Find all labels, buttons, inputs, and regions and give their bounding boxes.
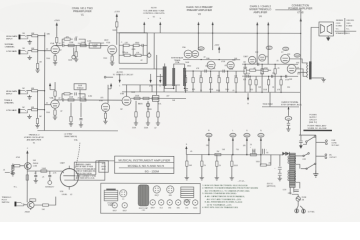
capacitor psu plus 2 bbox=[262, 149, 268, 155]
wire d3 to bus bbox=[200, 83, 202, 92]
svg-text:4W: 4W bbox=[243, 145, 246, 147]
svg-text:1500: 1500 bbox=[103, 58, 107, 60]
svg-text:+: + bbox=[274, 168, 275, 170]
svg-text:STRIP (SPEAKER JACK): STRIP (SPEAKER JACK) bbox=[281, 103, 302, 106]
resistor driver d5 bbox=[218, 71, 220, 77]
wire terminal drop bbox=[269, 92, 271, 106]
resistor pi mid b bbox=[262, 69, 268, 71]
svg-text:CAPACITANCE): CAPACITANCE) bbox=[64, 135, 78, 138]
svg-text:420V: 420V bbox=[259, 135, 263, 137]
wire V3B out row bbox=[131, 97, 186, 99]
svg-text:GND: GND bbox=[288, 193, 293, 195]
label driver row bbox=[184, 76, 238, 78]
svg-text:6V6: 6V6 bbox=[287, 54, 290, 56]
svg-text:6SQ7: 6SQ7 bbox=[155, 195, 159, 197]
capacitor driver coupling bbox=[205, 70, 206, 73]
wire pi mid row bbox=[246, 69, 271, 71]
resistor R4 bbox=[68, 44, 74, 46]
wire signal row ch1 bbox=[64, 44, 103, 46]
resistor mix 1 bbox=[134, 97, 140, 99]
capacitor rect filter b bbox=[278, 170, 282, 175]
resistor plate V1A bbox=[56, 38, 58, 43]
ground cap ch2 mid bbox=[79, 123, 83, 127]
AC plug bbox=[295, 206, 316, 214]
section header channel 1 preamplifier bbox=[72, 7, 93, 17]
label Q1 bbox=[33, 163, 38, 168]
svg-text:1500: 1500 bbox=[46, 58, 50, 60]
capacitor tremolo input bbox=[3, 169, 15, 174]
wire transformer secondary bottom bbox=[296, 182, 300, 188]
label speckle row ch1 bbox=[58, 40, 142, 61]
resistor tremolo base2 bbox=[12, 163, 14, 169]
wire driver signal row bbox=[183, 70, 245, 72]
capacitor pi extra a bbox=[247, 75, 248, 78]
svg-text:V2: V2 bbox=[153, 17, 155, 19]
supply arrow V3B bbox=[108, 83, 112, 103]
wire signal row ch2 bbox=[64, 99, 122, 101]
svg-text:270: 270 bbox=[272, 73, 275, 75]
svg-text:6C4: 6C4 bbox=[160, 207, 163, 209]
pot tone right bbox=[147, 52, 151, 57]
capacitor line GND bbox=[288, 190, 299, 195]
speaker spec table bbox=[335, 18, 357, 35]
section header tremolo bbox=[24, 135, 44, 145]
power transformer primary loops bbox=[288, 156, 289, 181]
boxed mixer component bbox=[152, 96, 159, 102]
resistor grid stopper ch1b bbox=[32, 50, 38, 52]
tube V2B bbox=[192, 50, 202, 58]
resistor ch1 bypass bbox=[64, 38, 70, 40]
ground jack3 bbox=[27, 95, 31, 99]
svg-text:INPUT: INPUT bbox=[6, 38, 13, 40]
resistor pi 3 bbox=[255, 76, 257, 79]
svg-text:.02: .02 bbox=[253, 68, 255, 70]
ground rect filter bbox=[279, 176, 281, 177]
wire pi4 down bbox=[261, 74, 263, 92]
resistor Q2 emitter bbox=[30, 208, 32, 210]
wire psu riser join bbox=[296, 155, 303, 157]
svg-text:80: 80 bbox=[266, 152, 268, 154]
label level bbox=[62, 194, 73, 196]
tube V4 phase inverter a bbox=[248, 56, 256, 64]
svg-text:+: + bbox=[266, 149, 267, 151]
svg-text:8 OHM: 8 OHM bbox=[346, 26, 352, 28]
svg-text:1500: 1500 bbox=[225, 89, 229, 91]
svg-text:340V: 340V bbox=[207, 135, 211, 137]
svg-text:INTENSITY: INTENSITY bbox=[45, 187, 55, 189]
svg-text:CHANNEL: CHANNEL bbox=[5, 45, 16, 48]
resistor R5 bbox=[80, 44, 86, 46]
svg-text:1500: 1500 bbox=[46, 112, 50, 114]
svg-text:.02: .02 bbox=[58, 98, 60, 100]
capacitor 15V bbox=[287, 120, 290, 125]
wire pi2 down bbox=[249, 85, 251, 92]
svg-text:.02: .02 bbox=[75, 36, 77, 38]
svg-text:V5: V5 bbox=[33, 143, 35, 145]
output transformer icon bbox=[181, 187, 194, 204]
svg-text:+340V: +340V bbox=[214, 45, 220, 47]
node B+ takeoff V4B bbox=[267, 22, 269, 65]
wire plate V3A bbox=[54, 96, 62, 100]
supply arrow tremolo bbox=[26, 148, 28, 158]
svg-text:6EU7: 6EU7 bbox=[113, 210, 117, 212]
title block frame bbox=[115, 156, 174, 173]
wire pi7 down bbox=[280, 85, 282, 92]
svg-text:C12R: C12R bbox=[336, 23, 341, 25]
resistor tremolo r2 bbox=[41, 170, 47, 172]
node E voltage ellipse bbox=[206, 130, 212, 137]
wire tone right vertical bbox=[153, 33, 155, 69]
ground jack1 bbox=[28, 40, 32, 44]
label speckle ch1 inputs bbox=[22, 33, 48, 50]
capacitor tremolo c2 bbox=[49, 171, 51, 174]
wire pi6 down bbox=[274, 74, 276, 92]
tube V2 bbox=[104, 40, 117, 55]
wire transformer bottom links bbox=[165, 86, 189, 89]
resistor cathode V3A bbox=[54, 108, 56, 110]
node B+ takeoff V1B bbox=[159, 22, 161, 33]
text power supply block bbox=[307, 114, 327, 130]
svg-text:.02: .02 bbox=[140, 60, 142, 62]
capacitor ch2 mid bbox=[79, 118, 82, 119]
wire plate feed bus y85 bbox=[122, 84, 180, 86]
resistor grid stopper ch2b bbox=[31, 109, 37, 111]
resistor filter 3 bbox=[216, 155, 218, 161]
svg-text:OUTLET: OUTLET bbox=[329, 157, 337, 159]
wire volume takeoff bbox=[75, 45, 77, 51]
resistor tone row2 a bbox=[124, 54, 130, 56]
jack J3 bbox=[18, 90, 27, 95]
svg-text:.02: .02 bbox=[46, 103, 48, 105]
tube socket icon A bbox=[120, 190, 127, 201]
resistor mix 3 bbox=[152, 97, 158, 99]
tube socket icon B bbox=[153, 186, 160, 197]
svg-text:.1: .1 bbox=[121, 42, 122, 44]
wire d5 to bus bbox=[218, 83, 220, 92]
svg-text:INPUT: INPUT bbox=[6, 93, 13, 95]
svg-text:.02: .02 bbox=[58, 43, 60, 45]
wire grid to tube V3A bbox=[45, 104, 51, 106]
capacitor rect filter a bbox=[274, 155, 281, 170]
label LPF row bbox=[132, 127, 157, 129]
ground grid leak ch1 bbox=[35, 68, 39, 72]
node S voltage ellipse bbox=[244, 130, 250, 137]
ground mix3 bbox=[156, 121, 160, 125]
wire plate V7 to OT bbox=[290, 59, 308, 63]
svg-text:.047: .047 bbox=[124, 42, 128, 44]
jack J1 bbox=[19, 35, 28, 40]
svg-text:4. INST. NPN. SILICON TRANSIST: 4. INST. NPN. SILICON TRANSISTORS bbox=[202, 206, 238, 209]
capacitor line filter bbox=[299, 135, 302, 143]
transformer T1 winding secondary 1 bbox=[172, 68, 175, 86]
ellipse voltage 170V bbox=[198, 47, 204, 51]
wire drop 140 bbox=[139, 85, 141, 92]
label speckle ch2 inputs bbox=[22, 88, 48, 118]
wire AC trunk bbox=[315, 135, 317, 170]
resistor grid leak ch1 bbox=[36, 63, 38, 68]
label mix row bbox=[135, 95, 140, 97]
transistor Q2 bbox=[27, 202, 34, 209]
svg-text:6EU7: 6EU7 bbox=[104, 40, 108, 42]
wire V3B plate bbox=[126, 85, 128, 96]
ground arrow line filter bbox=[299, 143, 303, 149]
wire pi mid row bbox=[242, 75, 298, 77]
svg-text:12AX7: 12AX7 bbox=[243, 55, 248, 58]
resistor vol mix 2 bbox=[147, 112, 149, 117]
svg-text:(APPROX): (APPROX) bbox=[267, 185, 276, 188]
svg-text:.01: .01 bbox=[3, 169, 5, 171]
resistor bass ch2 bbox=[70, 117, 72, 122]
svg-text:.02: .02 bbox=[60, 111, 62, 113]
resistor pi mid a bbox=[250, 69, 256, 71]
wire d1 to bus bbox=[185, 83, 187, 92]
svg-text:.05: .05 bbox=[190, 151, 192, 153]
node takeoff B under bus bbox=[247, 93, 249, 105]
ground cathode V3B bbox=[104, 118, 106, 120]
section header tremolo amplifier V4 bbox=[249, 4, 271, 18]
svg-text:2W: 2W bbox=[217, 151, 220, 153]
resistor psu bus 1 bbox=[215, 153, 221, 155]
title block rules bbox=[115, 162, 174, 168]
svg-text:2N508: 2N508 bbox=[25, 212, 30, 214]
svg-text:.02: .02 bbox=[46, 48, 48, 50]
svg-text:.02: .02 bbox=[199, 76, 201, 78]
svg-text:410: 410 bbox=[297, 73, 300, 75]
svg-text:EXT: EXT bbox=[102, 163, 105, 165]
pot mixer bbox=[146, 103, 150, 107]
capacitor pi coupling a bbox=[257, 63, 258, 66]
svg-text:POWER TRANS. ASSY: POWER TRANS. ASSY bbox=[307, 124, 327, 127]
svg-text:3. UNLESS OTHERWISE SPECIFIED:: 3. UNLESS OTHERWISE SPECIFIED: bbox=[202, 193, 237, 195]
wire OT secondary bottom bbox=[312, 77, 324, 79]
svg-text:AMPLIFIER: AMPLIFIER bbox=[253, 10, 267, 14]
svg-text:.02: .02 bbox=[59, 50, 61, 52]
wire 56 ohm bbox=[261, 155, 271, 165]
svg-text:117V AC: 117V AC bbox=[308, 210, 316, 213]
socket row 4 bbox=[158, 200, 163, 210]
wire pi1 down bbox=[244, 74, 246, 92]
tube V3B bbox=[120, 93, 131, 105]
wire terminal row bbox=[262, 106, 299, 108]
wire transformer top links bbox=[157, 55, 185, 95]
speaker terminal wire bbox=[311, 27, 319, 63]
tube socket icon C bbox=[167, 186, 174, 197]
svg-text:.05: .05 bbox=[277, 68, 279, 70]
wire bus to diodes bbox=[283, 154, 291, 155]
svg-text:.02: .02 bbox=[203, 57, 205, 59]
svg-text:2. RATINGS: VOLTAGES MEASURED: 2. RATINGS: VOLTAGES MEASURED FROM POINT… bbox=[202, 187, 258, 190]
resistor driver d4 bbox=[210, 71, 212, 77]
wire pi5 down bbox=[268, 85, 270, 92]
wire ch1 bypass loop bbox=[62, 39, 85, 45]
svg-text:.005: .005 bbox=[100, 97, 103, 99]
power tube V8 bbox=[287, 64, 299, 73]
resistor pi 5 bbox=[268, 76, 270, 79]
svg-text:6G - 150M: 6G - 150M bbox=[145, 169, 160, 173]
svg-text:117V 60C: 117V 60C bbox=[331, 145, 340, 147]
svg-text:3.3M: 3.3M bbox=[87, 41, 91, 43]
wire foot switch to Q2 bbox=[24, 201, 28, 205]
svg-text:5600: 5600 bbox=[256, 161, 260, 163]
svg-text:20: 20 bbox=[219, 165, 221, 167]
node B+ takeoff V2B bbox=[212, 22, 214, 51]
ellipse voltage 170V pi bbox=[283, 47, 289, 51]
wire mix bottoms bbox=[136, 117, 158, 122]
wire grid to tube V1A bbox=[45, 50, 51, 52]
switch on off bbox=[302, 153, 309, 161]
svg-text:1/2 W. TOLERANCE +-10%: 1/2 W. TOLERANCE +-10% bbox=[207, 203, 232, 206]
svg-text:.05: .05 bbox=[224, 65, 226, 67]
label 45V bbox=[267, 183, 276, 188]
label driver row2 bbox=[187, 65, 229, 91]
svg-text:20: 20 bbox=[204, 165, 206, 167]
wire d2 to bus bbox=[192, 83, 194, 92]
label line cord bbox=[331, 140, 340, 147]
supply arrow +V V2 bbox=[114, 11, 121, 22]
boxed label treble 500K bbox=[74, 84, 86, 90]
wire pi plate row bbox=[242, 63, 298, 65]
wire jack4 to bus bbox=[28, 109, 45, 111]
wire ch2 bottom bus bbox=[37, 130, 117, 132]
svg-text:20: 20 bbox=[250, 144, 252, 146]
svg-text:ALL VOLT. AND TOLERANCES +-20%: ALL VOLT. AND TOLERANCES +-20% bbox=[207, 198, 242, 201]
speaker frame bbox=[319, 22, 334, 36]
intensity pot bbox=[45, 178, 55, 189]
node pi dots bbox=[245, 64, 282, 77]
ellipse voltage 15V pi bbox=[266, 46, 272, 50]
svg-text:+250V: +250V bbox=[54, 20, 61, 22]
tube V2A bbox=[182, 46, 192, 58]
wire jack1 to bus bbox=[27, 35, 45, 37]
node B+ arrow top bbox=[300, 18, 302, 21]
resistor mix 2 bbox=[143, 97, 149, 99]
svg-text:V.C.: V.C. bbox=[336, 28, 340, 30]
resistor cathode V3B bbox=[104, 111, 106, 113]
wire A stub bbox=[104, 76, 113, 78]
socket row 8 bbox=[192, 200, 197, 210]
svg-text:8 OHM: 8 OHM bbox=[336, 26, 342, 28]
wire OT secondary top bbox=[310, 63, 313, 65]
control arrow volume bbox=[119, 74, 121, 88]
underline bar power supply bbox=[303, 130, 332, 131]
resistor 56 ohm 7W bbox=[260, 164, 266, 166]
label speckle psu bbox=[190, 145, 246, 153]
ellipse voltage 15V psu bbox=[285, 116, 292, 120]
resistor grid stopper ch2a bbox=[32, 90, 38, 92]
node driver dots bbox=[193, 59, 229, 72]
socket row 2 bbox=[122, 203, 127, 213]
tube V3A bbox=[50, 97, 60, 109]
svg-text:L: L bbox=[232, 130, 233, 132]
text chassis terminal bbox=[281, 101, 302, 107]
label foot switch bbox=[2, 197, 12, 204]
resistor q2 out bbox=[43, 204, 49, 206]
tube V4A bbox=[206, 57, 215, 69]
wire plate V2 down bbox=[117, 27, 120, 45]
svg-text:820: 820 bbox=[192, 89, 195, 91]
wire grid bus ch2 bbox=[36, 91, 38, 119]
section header power amplifier V7 V8 bbox=[288, 3, 312, 14]
label speckle mixer bbox=[138, 95, 176, 111]
supply arrow V3 bbox=[49, 82, 55, 91]
tube V1A bbox=[50, 42, 59, 54]
svg-text:SPKR: SPKR bbox=[101, 166, 106, 168]
svg-text:6800: 6800 bbox=[187, 66, 191, 68]
resistor grid leak ch2 bbox=[36, 118, 38, 123]
wire d6 to bus bbox=[227, 83, 229, 92]
node B+ takeoff V4A bbox=[256, 22, 258, 65]
capacitor coupling ch2 bbox=[62, 98, 63, 101]
control arrow treble bbox=[149, 74, 153, 88]
svg-text:+: + bbox=[250, 147, 251, 149]
svg-text:MUSICAL INSTRUMENT AMPLIFIER: MUSICAL INSTRUMENT AMPLIFIER bbox=[118, 158, 171, 162]
capacitor pi extra b bbox=[285, 75, 286, 78]
label ch1 bypass bbox=[66, 36, 78, 38]
capacitor pi coupling b bbox=[271, 75, 272, 78]
svg-text:360V: 360V bbox=[245, 135, 249, 137]
wire B+ feed vertical right bbox=[299, 33, 301, 135]
wire drop 164 bbox=[163, 85, 165, 92]
resistor pi 6 bbox=[274, 64, 276, 68]
resistor plate V3A bbox=[54, 91, 56, 96]
resistor tone 1 bbox=[123, 44, 129, 46]
svg-text:750: 750 bbox=[236, 149, 239, 151]
svg-text:25: 25 bbox=[200, 90, 202, 92]
node B+ takeoff V2 bbox=[197, 22, 199, 51]
label low gain bbox=[6, 50, 17, 53]
svg-text:TO TREMOLO CIRCUIT: TO TREMOLO CIRCUIT bbox=[113, 74, 134, 76]
resistor cathode V1A bbox=[54, 54, 56, 56]
ground filter 4 bbox=[231, 166, 233, 176]
node input bus dots bbox=[44, 35, 45, 110]
tone loop rectangle bbox=[119, 33, 147, 64]
label low gain ch2 bbox=[6, 109, 17, 112]
svg-text:.02: .02 bbox=[82, 97, 85, 99]
svg-text:JENSEN: JENSEN bbox=[336, 20, 344, 22]
wire ch2 bypass loop bbox=[62, 94, 85, 100]
tube V3B second triode bbox=[99, 100, 110, 111]
wire q2 out bbox=[34, 197, 56, 206]
svg-text:A. ALL CAPACITANCES IN MICROFA: A. ALL CAPACITANCES IN MICROFARADS, bbox=[205, 195, 245, 198]
label instrument bbox=[5, 43, 16, 49]
wire jack2 to bus bbox=[28, 50, 45, 52]
contact line cord bbox=[316, 140, 327, 145]
socket row 5 bbox=[167, 200, 172, 210]
wire grid bus x37 bbox=[37, 36, 39, 64]
wire box to row bbox=[79, 90, 81, 98]
svg-text:MODELS NO.5 AND NO.5: MODELS NO.5 AND NO.5 bbox=[128, 164, 165, 168]
wire psu bus bbox=[186, 154, 282, 156]
ground grid leak ch2 bbox=[35, 124, 39, 128]
resistor cathode V2 bbox=[111, 54, 113, 56]
label pi extra bbox=[246, 68, 293, 92]
node B+ takeoff V1 bbox=[143, 21, 145, 32]
wire plate to coupling bbox=[55, 43, 62, 46]
wire transformer secondary top bbox=[296, 164, 300, 168]
svg-text:6V6: 6V6 bbox=[177, 207, 180, 209]
resistor ch2 row1 bbox=[68, 99, 74, 101]
ground bass ch2 bbox=[69, 122, 73, 126]
ground filter 2 bbox=[201, 166, 203, 176]
label ch1 misc values bbox=[31, 33, 107, 64]
ground jack4 bbox=[27, 115, 31, 119]
svg-text:+170V: +170V bbox=[114, 11, 121, 13]
label q2 bbox=[25, 209, 46, 214]
title block text bbox=[118, 158, 171, 173]
svg-text:ALL VOLTAGES D.C. TO CHASSIS (: ALL VOLTAGES D.C. TO CHASSIS (POINT) GND… bbox=[205, 189, 251, 192]
dashed stray capacitance bbox=[64, 133, 80, 169]
svg-text:SWITCH: SWITCH bbox=[2, 202, 10, 204]
